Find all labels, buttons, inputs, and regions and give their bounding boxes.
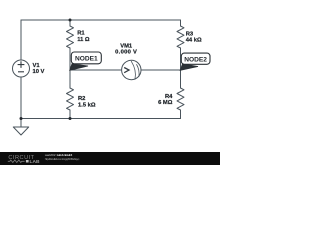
- wire R4 top lead: [180, 70, 182, 88]
- svg-text:6 MΩ: 6 MΩ: [158, 100, 173, 106]
- label V1 value: [33, 63, 45, 75]
- svg-text:11 Ω: 11 Ω: [77, 37, 90, 43]
- resistor R3: [177, 26, 184, 48]
- node NODE1 callout: [70, 52, 102, 70]
- svg-text:LAB: LAB: [30, 159, 41, 165]
- node NODE2 callout: [180, 53, 210, 70]
- resistor R4: [177, 88, 184, 110]
- svg-text:1.5 kΩ: 1.5 kΩ: [78, 102, 96, 108]
- wire R2 leads: [69, 70, 71, 119]
- voltmeter VM1 needle arcs: [131, 61, 135, 79]
- VM1 arrow glyph: [124, 68, 129, 73]
- wire middle left (NODE1 to VM1): [70, 69, 122, 71]
- svg-text:R4: R4: [165, 94, 173, 100]
- label R1 value: [77, 31, 90, 44]
- junction dot top (R1/top rail): [69, 19, 72, 22]
- wire V1 top lead: [20, 20, 22, 60]
- svg-text:NODE2: NODE2: [184, 57, 207, 64]
- label VM1 value: [115, 43, 137, 55]
- footer CircuitLab logo: [8, 155, 40, 165]
- svg-text:R1: R1: [77, 31, 85, 37]
- wire top rail: [21, 19, 181, 21]
- wire R3 leads: [180, 20, 182, 70]
- label R3 value: [186, 31, 202, 43]
- svg-text:R3: R3: [186, 31, 194, 37]
- wire bottom rail: [21, 118, 181, 120]
- V1 plus sign: [18, 61, 25, 72]
- footer bar: [0, 152, 220, 165]
- wire middle right (VM1 to NODE2): [141, 69, 181, 71]
- resistor R1: [67, 26, 74, 48]
- wire R4 bottom lead: [180, 110, 182, 119]
- svg-text:44 kΩ: 44 kΩ: [186, 38, 202, 44]
- ground: [13, 119, 28, 136]
- junction dot V1/bottom rail: [20, 117, 23, 120]
- svg-text:http://circuitlab.com/csgq3945: http://circuitlab.com/csgq3945a6qvp: [45, 157, 80, 161]
- svg-text:R2: R2: [78, 96, 85, 102]
- junction dot R2/bottom rail: [69, 117, 72, 120]
- resistor R2: [67, 88, 74, 110]
- voltage source V1: [13, 60, 30, 77]
- svg-text:NODE1: NODE1: [75, 56, 98, 63]
- V1 minus sign: [18, 71, 24, 73]
- svg-text:0.000 V: 0.000 V: [115, 49, 137, 55]
- label R2 value: [78, 96, 96, 108]
- svg-text:10 V: 10 V: [33, 69, 45, 75]
- voltmeter VM1: [122, 60, 141, 79]
- wire V1 bottom lead: [20, 77, 22, 119]
- wire R1 leads: [69, 20, 71, 70]
- label R4 value: [158, 94, 173, 106]
